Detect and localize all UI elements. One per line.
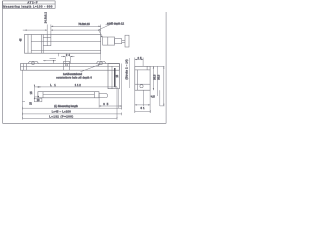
title block box xyxy=(3,1,56,8)
dim 112 arrows xyxy=(38,86,117,87)
measuring length dim line xyxy=(22,107,121,109)
center clamp box xyxy=(64,61,70,63)
cable overhang arrows xyxy=(99,105,122,106)
clamp leader vertical xyxy=(57,53,59,56)
plunger rod bottom xyxy=(122,41,125,43)
counterbore leader xyxy=(81,64,101,71)
section bottom ext d xyxy=(159,90,161,106)
lug 1 hole circle xyxy=(32,62,35,65)
dim row B line right segment xyxy=(51,29,101,31)
svg-text:78.5±0.15: 78.5±0.15 xyxy=(78,22,90,26)
head block left inner xyxy=(111,66,113,89)
top view left cap 2 xyxy=(26,64,28,71)
frame bottom border xyxy=(3,122,167,124)
side view rail line upper xyxy=(31,40,101,42)
section right bottom tie line xyxy=(160,105,165,107)
side view slider right edge a xyxy=(46,35,48,47)
section right overall dim line xyxy=(163,66,165,106)
dim row x line xyxy=(22,100,25,102)
cable overhang ext a xyxy=(98,93,100,107)
dim row B line left segment xyxy=(23,29,47,31)
frame left border xyxy=(2,1,4,124)
strip dim tie line lower xyxy=(34,96,38,98)
bottom strip outline xyxy=(38,92,99,98)
lug offset arrow xyxy=(44,60,46,61)
strip dim tie line upper xyxy=(34,86,38,88)
clamp width dim tails xyxy=(61,56,75,58)
svg-text:L+132 (P=200): L+132 (P=200) xyxy=(49,115,73,119)
bottom strip right cap xyxy=(94,92,96,98)
plunger rod top xyxy=(122,39,125,41)
svg-text:Measuring length L=100 - 600: Measuring length L=100 - 600 xyxy=(3,4,53,8)
4-M5 leader underline xyxy=(106,24,111,26)
svg-text:AT2-F: AT2-F xyxy=(28,0,38,4)
top view left cap 1 xyxy=(23,64,25,71)
svg-text:(L) Measuring length: (L) Measuring length xyxy=(54,104,78,108)
section right dim 36 arrows xyxy=(153,66,154,90)
section bottom dim row2 line xyxy=(135,110,151,112)
stroke dim vertical line xyxy=(129,58,131,88)
section bottom dim 61 arrows xyxy=(135,104,150,105)
clamp width dim arrows xyxy=(63,56,72,57)
center clamp right line xyxy=(69,64,71,71)
dim row B arrows xyxy=(25,29,101,30)
lug 2 trapezoid xyxy=(96,61,106,63)
left long extension line xyxy=(21,70,23,118)
center clamp left line xyxy=(63,64,65,71)
section right top tie line xyxy=(150,65,164,67)
frame right border xyxy=(165,12,167,123)
svg-text:24: 24 xyxy=(66,53,71,57)
head block inner projection xyxy=(118,89,120,108)
section top dim ext a xyxy=(134,58,136,67)
plunger segment 1 xyxy=(103,37,115,45)
bottom strip step right xyxy=(99,93,108,97)
projection line body to band xyxy=(100,53,102,60)
section bottom ext b xyxy=(143,90,145,106)
section right dim 36 line xyxy=(152,66,154,90)
svg-text:15: 15 xyxy=(117,74,119,77)
head block dark bar xyxy=(114,68,116,87)
strip junction dot 1 xyxy=(38,96,39,97)
lug 1 trapezoid xyxy=(28,61,39,63)
top view band outline xyxy=(21,64,120,71)
svg-text:112: 112 xyxy=(75,83,82,87)
svg-text:36.5: 36.5 xyxy=(152,74,156,80)
section bottom ext a xyxy=(134,90,136,113)
section inner top line xyxy=(135,69,150,71)
side view body outline xyxy=(25,35,101,54)
section 4.5 dim line xyxy=(150,95,152,97)
counterbore leader arrow xyxy=(98,64,100,66)
section right overall arrows xyxy=(163,66,164,106)
svg-text:L1: L1 xyxy=(50,83,56,87)
measuring length end ticks xyxy=(22,107,121,110)
side view slider inner edge xyxy=(42,35,44,54)
svg-text:L+45 ~ L+200: L+45 ~ L+200 xyxy=(52,110,71,114)
side view slider right edge b xyxy=(50,35,52,47)
section bottom dim row2 ticks xyxy=(135,110,151,113)
top small dim ext line a xyxy=(46,25,48,35)
svg-text:(Stroke 2 ~ 14): (Stroke 2 ~ 14) xyxy=(125,59,129,79)
title block divider xyxy=(3,3,56,5)
section inner left vertical xyxy=(136,70,138,90)
svg-text:25: 25 xyxy=(138,56,143,60)
L plus A end ticks xyxy=(22,113,121,116)
svg-text:counterbore hole ø8 depth 6: counterbore hole ø8 depth 6 xyxy=(56,77,92,80)
L plus B dim line xyxy=(22,117,117,119)
dim row A line xyxy=(51,25,101,27)
section top dim line xyxy=(135,59,143,61)
bottom strip left cap xyxy=(42,92,44,98)
dim row A right ext xyxy=(100,25,102,35)
side view slider step bottom xyxy=(43,45,51,47)
dim 112 right ext xyxy=(116,87,118,118)
section bottom dim 61 line xyxy=(135,104,150,106)
clamp width ext b xyxy=(69,57,71,64)
strip height dim line xyxy=(33,85,35,99)
svg-text:15: 15 xyxy=(29,102,32,105)
L plus B end ticks xyxy=(22,117,117,120)
plunger segment 1 divider xyxy=(107,37,109,45)
side view rail line lower xyxy=(31,49,101,51)
lug 2 hole circle xyxy=(100,62,103,65)
dim 112 left dot xyxy=(38,86,39,87)
svg-text:24.5±0.2: 24.5±0.2 xyxy=(44,12,47,24)
lug offset ext xyxy=(53,61,55,64)
svg-text:38.5: 38.5 xyxy=(157,74,161,80)
section square outline xyxy=(135,66,150,90)
side view left cap line 1 xyxy=(27,35,29,54)
top small dim ext line b xyxy=(50,25,52,35)
side view slider left edge xyxy=(40,35,42,54)
4-M5 leader arrow xyxy=(101,36,103,38)
clamp width ext a xyxy=(64,57,66,64)
plunger end plate xyxy=(125,35,129,47)
svg-text:35: 35 xyxy=(103,102,109,106)
side view left cap line 2 xyxy=(30,35,32,54)
section bottom ext c xyxy=(149,90,151,113)
section circle xyxy=(140,85,143,88)
center clamp circle xyxy=(66,64,68,66)
dim row A arrows xyxy=(51,26,101,27)
lug offset dot xyxy=(53,60,54,61)
dim 112 line xyxy=(38,86,117,88)
cable overhang dim line xyxy=(99,105,122,107)
bottom strip inner line xyxy=(43,94,95,96)
svg-text:45: 45 xyxy=(19,38,22,41)
section top dim ext b xyxy=(142,58,144,67)
cable overhang ext b xyxy=(121,64,123,108)
4-M5 leader xyxy=(98,25,109,37)
svg-text:4.5: 4.5 xyxy=(151,95,155,99)
svg-text:15: 15 xyxy=(29,91,33,94)
svg-text:2-ø4.5 counterbored: 2-ø4.5 counterbored xyxy=(63,73,83,76)
strip height dim arrows xyxy=(34,85,35,99)
section top dim arrows xyxy=(135,59,143,60)
side view slider step top xyxy=(43,37,51,39)
lug offset dim line xyxy=(43,60,56,62)
section inner vertical xyxy=(146,66,148,70)
section right dim 38 line xyxy=(157,66,159,96)
section inner bottom line xyxy=(135,83,150,85)
svg-text:61: 61 xyxy=(141,106,146,110)
plunger segment 2 xyxy=(115,39,122,44)
L plus A dim line xyxy=(22,113,121,115)
dim 120 small box xyxy=(34,98,42,102)
head block outline xyxy=(108,64,119,89)
top view band inner line xyxy=(21,65,120,67)
